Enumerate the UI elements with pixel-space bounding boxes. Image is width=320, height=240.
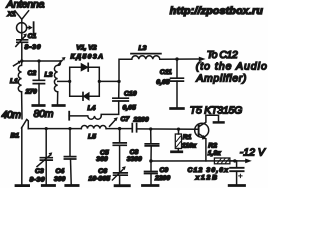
- label C3: [35, 168, 44, 175]
- capacitor C1 trimmer: [16, 34, 28, 47]
- svg-text:V1, V2: V1, V2: [76, 44, 97, 51]
- output arrow to C12: [199, 57, 206, 62]
- wire L3 to output: [160, 58, 200, 60]
- label L3: [139, 45, 147, 52]
- ground L2: [53, 104, 64, 107]
- wire bus L5 to C7: [106, 128, 131, 130]
- label 300: [54, 176, 66, 183]
- svg-text:360: 360: [96, 156, 108, 163]
- node C11 top: [175, 57, 178, 60]
- ground C2: [33, 104, 44, 107]
- ground C3: [42, 184, 54, 187]
- transistor T5: [195, 115, 219, 161]
- node R1 top: [177, 128, 180, 131]
- inductor L4 with left terminal: [69, 112, 101, 120]
- ground C9: [143, 184, 159, 187]
- inductor L5: [81, 125, 106, 128]
- capacitor C11: [171, 59, 184, 107]
- wire L2 tap to diodes: [58, 80, 70, 82]
- wire diode loop frame: [70, 67, 100, 96]
- wire tank top bus: [22, 60, 61, 62]
- ground C11: [171, 107, 184, 110]
- svg-text:L5: L5: [88, 134, 96, 141]
- wire L1 to switch: [21, 92, 23, 119]
- ground C4: [66, 184, 78, 187]
- svg-text:0,05: 0,05: [156, 79, 169, 86]
- svg-text:B1: B1: [11, 133, 20, 140]
- wire main bus left: [28, 128, 81, 130]
- label -12 V: [240, 146, 266, 158]
- label R2: [208, 142, 217, 149]
- svg-text:-12 V: -12 V: [240, 146, 266, 158]
- wire L2 to ground: [57, 92, 59, 104]
- resistor R1: [175, 129, 181, 150]
- capacitor C4: [64, 129, 75, 185]
- svg-text:Antenna: Antenna: [6, 0, 45, 11]
- svg-text:х12В: х12В: [195, 174, 218, 181]
- label Antenna: [6, 0, 45, 11]
- svg-text:C7: C7: [121, 116, 131, 123]
- label L2: [45, 72, 53, 79]
- svg-text:2200: 2200: [133, 117, 149, 124]
- label L4: [88, 105, 96, 112]
- antenna symbol: [15, 11, 29, 33]
- svg-text:To C12: To C12: [207, 49, 238, 61]
- svg-text:270: 270: [25, 89, 38, 96]
- svg-text:1,8к: 1,8к: [208, 150, 221, 157]
- inductor L2: [54, 61, 60, 92]
- capacitor C9: [145, 161, 157, 184]
- svg-text:8-30: 8-30: [25, 44, 41, 51]
- label C6: [98, 168, 107, 175]
- capacitor C2: [33, 61, 44, 104]
- label C9: [160, 167, 169, 174]
- svg-text:300: 300: [54, 176, 66, 183]
- label X1: [7, 11, 17, 18]
- label Amplifier): [195, 73, 246, 85]
- svg-text:C6: C6: [98, 168, 107, 175]
- label 8-30: [25, 44, 41, 51]
- svg-text:10-365: 10-365: [89, 176, 111, 183]
- capacitor C13 electrolytic: [230, 161, 243, 184]
- label 8-30 C3: [30, 177, 45, 184]
- label T5 KT315G: [190, 105, 243, 117]
- capacitor C5: [113, 129, 126, 173]
- svg-text:8-30: 8-30: [30, 177, 45, 184]
- label C5: [100, 149, 109, 156]
- inductor L3: [132, 56, 160, 59]
- label C8: [130, 149, 139, 156]
- wire diodes to node B: [99, 80, 119, 82]
- svg-text:R1: R1: [183, 134, 192, 141]
- svg-text:Amplifier): Amplifier): [195, 73, 246, 85]
- label C12 30,0x: [188, 167, 230, 174]
- node diode loop left: [68, 80, 71, 83]
- svg-text:L3: L3: [139, 45, 147, 52]
- label (to the Audio: [196, 61, 267, 73]
- label C2: [28, 70, 37, 77]
- wire antenna to C1: [21, 32, 23, 39]
- connector X1 plug arrow and bar: [27, 22, 34, 33]
- label C11: [160, 69, 172, 76]
- capacitor C8: [145, 129, 158, 161]
- svg-text:C12 30,0х: C12 30,0х: [188, 167, 230, 174]
- arrow at L2 top: [58, 57, 66, 65]
- svg-text:X1: X1: [7, 11, 17, 18]
- label B1: [11, 133, 20, 140]
- switch B1 blade: [22, 120, 27, 129]
- svg-text:L1: L1: [10, 78, 18, 85]
- svg-text:C10: C10: [124, 91, 137, 98]
- capacitor C6 variable: [112, 166, 127, 184]
- label R1: [183, 134, 192, 141]
- wire riser node B to L3: [119, 59, 132, 81]
- connector X1 socket circle: [17, 23, 27, 33]
- capacitor C10: [101, 81, 128, 116]
- wire emitter bus: [151, 160, 235, 162]
- node C3 top: [45, 127, 48, 130]
- label To C12: [207, 49, 238, 61]
- capacitor C3 trimmer: [37, 129, 52, 185]
- label 10-365: [89, 176, 111, 183]
- label 40m: [2, 109, 22, 121]
- wire 80m contact riser: [27, 120, 29, 129]
- svg-text:110к: 110к: [182, 143, 197, 150]
- svg-text:40m: 40m: [2, 109, 22, 121]
- node supply junction: [233, 159, 236, 162]
- ground collector T5: [214, 121, 224, 124]
- node C8 top: [149, 127, 152, 130]
- svg-text:C11: C11: [160, 69, 172, 76]
- label C10: [124, 91, 137, 98]
- wire B1 to ground: [21, 128, 23, 185]
- svg-text:(to the Audio: (to the Audio: [196, 61, 267, 73]
- node diode loop right: [98, 80, 101, 83]
- label C7 2200: [121, 116, 149, 124]
- label 360: [96, 156, 108, 163]
- svg-text:2200: 2200: [154, 175, 170, 182]
- ground C6: [115, 184, 129, 187]
- svg-text:C2: C2: [28, 70, 37, 77]
- inductor L1: [18, 61, 22, 92]
- svg-text:R2: R2: [208, 142, 217, 149]
- watermark http://zpostbox.ru: [170, 5, 264, 17]
- node C4 top: [68, 127, 71, 130]
- arrow at node A: [14, 61, 22, 66]
- node emitter bus left: [149, 159, 152, 162]
- svg-text:C4: C4: [56, 168, 65, 175]
- label C4: [56, 168, 65, 175]
- node C5 top: [118, 127, 121, 130]
- svg-text:http://zpostbox.ru: http://zpostbox.ru: [170, 5, 264, 17]
- label 110к: [182, 143, 197, 150]
- label 0,05 C11: [156, 79, 169, 86]
- label L5: [88, 134, 96, 141]
- svg-text:L2: L2: [45, 72, 53, 79]
- svg-text:C1: C1: [28, 33, 37, 40]
- svg-text:C9: C9: [160, 167, 169, 174]
- label 270: [25, 89, 38, 96]
- label C1: [28, 33, 37, 40]
- label V1, V2: [76, 44, 97, 51]
- svg-text:C3: C3: [35, 168, 44, 175]
- label x12B: [195, 174, 218, 181]
- label L1: [10, 78, 18, 85]
- supply arrow -12V: [235, 159, 252, 164]
- capacitor C7: [132, 124, 136, 132]
- svg-text:3300: 3300: [127, 156, 142, 163]
- wire C1 to tank node: [21, 42, 23, 61]
- wire bus C7 to base: [137, 128, 199, 130]
- ground B1: [16, 184, 29, 187]
- node C2 top: [37, 59, 40, 62]
- svg-text:L4: L4: [88, 105, 96, 112]
- label 3300: [127, 156, 142, 163]
- ground R1: [172, 150, 182, 153]
- label 0,05 C10: [123, 105, 136, 112]
- ground C13: [229, 184, 244, 187]
- node A junction: [20, 59, 23, 62]
- label 80m: [34, 108, 54, 120]
- core bar L3: [131, 53, 161, 55]
- node B junction: [117, 80, 120, 83]
- svg-text:КД503А: КД503А: [71, 54, 104, 61]
- label 1,8к: [208, 150, 221, 157]
- diode V2: [83, 93, 89, 101]
- label 2200 C9: [154, 175, 170, 182]
- diode V1: [81, 63, 88, 71]
- svg-text:80m: 80m: [34, 108, 54, 120]
- label КД503А: [71, 54, 104, 61]
- resistor R2: [214, 158, 234, 164]
- arrow at L4 node: [110, 117, 118, 126]
- svg-text:0,05: 0,05: [123, 105, 136, 112]
